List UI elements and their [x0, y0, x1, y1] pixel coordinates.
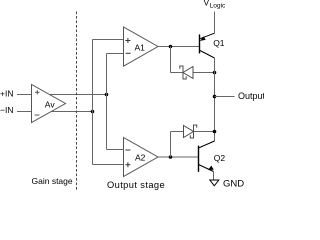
- label GND: [223, 178, 244, 189]
- transistor Q1 (PNP, emitter to V_Logic): [200, 33, 215, 58]
- node junction dot D1 to rail: [213, 71, 217, 75]
- wire +IN to Av and Av upper output to node: [17, 94, 107, 96]
- wire A2 output to Q2 base: [158, 156, 199, 158]
- node junction dot on Q2 base wire: [169, 155, 173, 159]
- svg-text:+IN: +IN: [0, 88, 13, 98]
- wire Q2 emitter to ground: [213, 172, 215, 181]
- node -IN label: [0, 105, 13, 115]
- svg-text:Logic: Logic: [210, 2, 226, 9]
- svg-text:Q2: Q2: [214, 153, 226, 163]
- svg-text:Av: Av: [45, 99, 56, 109]
- svg-text:GND: GND: [223, 178, 244, 189]
- wire D1 branch vertical: [170, 47, 172, 73]
- stage separator dashed line: [76, 12, 78, 191]
- svg-text:A2: A2: [135, 152, 146, 162]
- node +IN label: [0, 88, 13, 98]
- svg-text:Gain stage: Gain stage: [32, 176, 73, 186]
- wire D2 row horizontal: [171, 131, 215, 133]
- wire -IN to Av and Av lower output to node: [17, 111, 93, 113]
- wire A1 output to Q1 base: [158, 46, 200, 48]
- node Output label: [238, 91, 266, 101]
- wire output tap: [215, 96, 235, 98]
- power V_Logic: [204, 0, 227, 33]
- label Gain stage: [32, 176, 73, 186]
- wire to A1 - input: [107, 53, 124, 55]
- op-amp Av: [32, 85, 66, 123]
- op-amp A2: [124, 138, 159, 177]
- wire D1 row horizontal: [171, 72, 215, 74]
- wire vertical net A1-/A2-: [106, 54, 108, 150]
- svg-text:V: V: [204, 0, 210, 8]
- svg-text:A1: A1: [135, 42, 146, 52]
- node junction dot D2 to rail: [213, 130, 217, 134]
- wire D2 branch vertical: [170, 132, 172, 158]
- node junction dot on Q1 base wire: [169, 45, 173, 49]
- transistor Q2 (NPN, emitter to GND): [199, 141, 215, 172]
- svg-text:−IN: −IN: [0, 105, 13, 115]
- wire to A2 - input: [107, 149, 124, 151]
- node junction dot lower (Av lower out to A1+/A2+ net): [91, 110, 95, 114]
- wire vertical net A1+/A2+: [92, 40, 94, 165]
- label Output stage: [107, 180, 165, 190]
- ground: [210, 180, 219, 186]
- svg-text:Output stage: Output stage: [107, 180, 165, 190]
- svg-text:Q1: Q1: [213, 38, 225, 48]
- svg-text:Output: Output: [238, 91, 264, 101]
- diode D1 (Schottky, cathode left): [180, 66, 193, 79]
- wire to A1 + input: [93, 39, 124, 41]
- wire emitter rail Q1 to Q2: [214, 58, 216, 141]
- node junction dot upper (Av upper out to A1-/A2- net): [105, 93, 109, 97]
- op-amp A1: [124, 27, 159, 66]
- label Q1: [213, 38, 225, 48]
- diode D2 (Schottky, cathode right): [184, 125, 197, 138]
- wire to A2 + input: [93, 164, 124, 166]
- node junction dot output tap: [213, 95, 217, 99]
- label Q2: [214, 153, 226, 163]
